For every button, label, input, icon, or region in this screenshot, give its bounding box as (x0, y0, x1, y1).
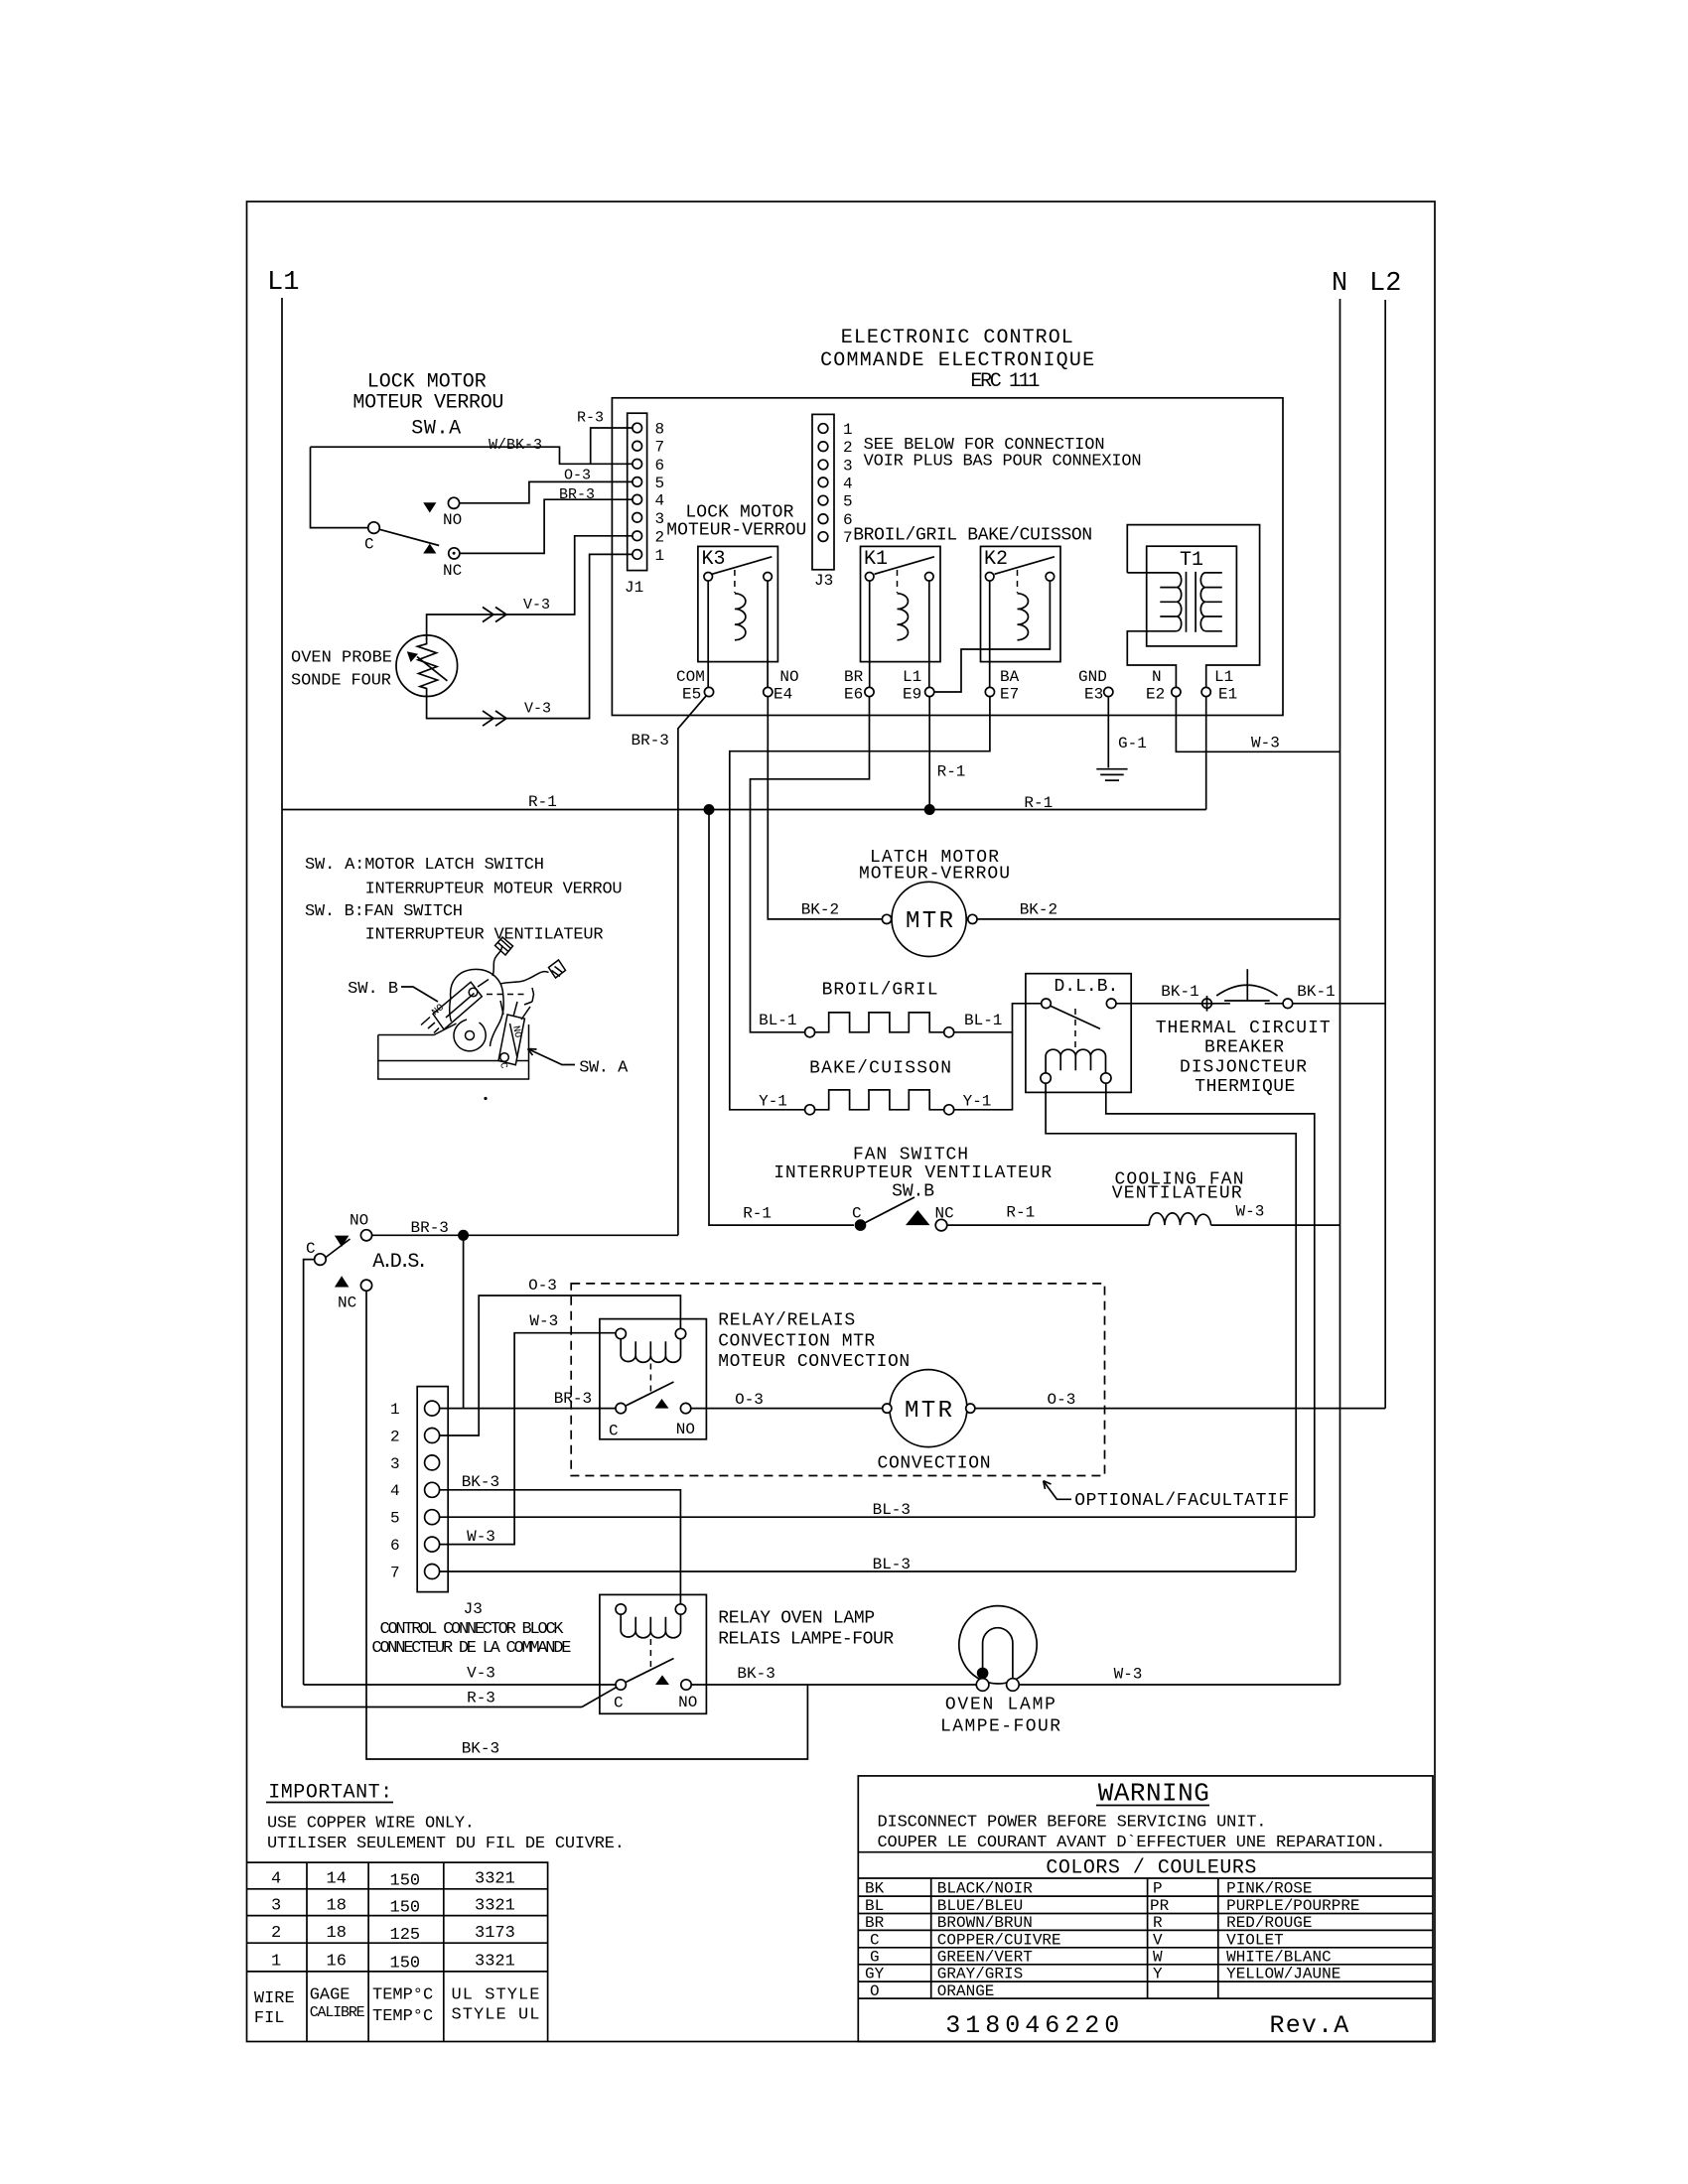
wire lead 1 (492, 945, 502, 976)
svg-text:ERC 111: ERC 111 (970, 370, 1040, 393)
microswitch SW.A body (498, 1015, 524, 1065)
svg-text:L2: L2 (1369, 269, 1401, 299)
J1 pin 5 (633, 478, 642, 487)
wire E9 to K2 right contact (934, 581, 1051, 692)
svg-text:OVEN LAMP: OVEN LAMP (945, 1696, 1055, 1715)
convection relay coil (616, 1328, 626, 1338)
wire A.D.S. NC down to BK-3 bottom (366, 1291, 807, 1759)
wire R-1 from E1 down to bus (1205, 697, 1207, 810)
svg-text:RED/ROUGE: RED/ROUGE (1226, 1914, 1312, 1932)
svg-text:COUPER LE COURANT AVANT D`EFFE: COUPER LE COURANT AVANT D`EFFECTUER UNE … (878, 1834, 1386, 1852)
switch SW.A contact C (368, 522, 380, 534)
svg-text:318046220: 318046220 (945, 2011, 1124, 2040)
svg-text:LAMPE-FOUR: LAMPE-FOUR (940, 1717, 1060, 1737)
svg-text:SW. B:FAN SWITCH: SW. B:FAN SWITCH (305, 902, 463, 921)
pin E7 (985, 687, 994, 696)
wire R-1 fan row to cooling fan (947, 1224, 1149, 1226)
switch SW.A contact NO + wire O-3 to J1 pin 5 (460, 481, 637, 502)
switch SW.A lever (379, 529, 439, 545)
relay convection box (600, 1319, 707, 1439)
svg-text:BK-3: BK-3 (737, 1665, 774, 1683)
svg-text:2: 2 (843, 439, 853, 457)
svg-text:V-3: V-3 (524, 701, 551, 718)
svg-text:VOIR PLUS BAS POUR CONNEXION: VOIR PLUS BAS POUR CONNEXION (864, 453, 1142, 472)
spade terminal 2 (549, 960, 566, 978)
svg-text:BK-2: BK-2 (1020, 901, 1057, 919)
lamp relay contacts (616, 1680, 626, 1690)
J1 pin 6 (633, 460, 642, 470)
svg-text:W-3: W-3 (1236, 1203, 1265, 1221)
convection relay lever (626, 1382, 673, 1406)
svg-text:DISCONNECT POWER BEFORE SERVIC: DISCONNECT POWER BEFORE SERVICING UNIT. (878, 1814, 1267, 1833)
svg-text:C: C (364, 536, 374, 554)
svg-text:FIL: FIL (254, 2009, 285, 2028)
svg-text:R-1: R-1 (1006, 1204, 1035, 1222)
svg-text:J1: J1 (625, 579, 643, 597)
svg-text:125: 125 (390, 1926, 421, 1945)
svg-text:BR-3: BR-3 (554, 1390, 592, 1408)
transformer T1 outer wiring loop (1127, 525, 1259, 692)
motor body (dome) (451, 969, 504, 1046)
svg-text:5: 5 (655, 475, 665, 492)
svg-text:PINK/ROSE: PINK/ROSE (1226, 1880, 1312, 1898)
svg-text:4: 4 (655, 492, 665, 510)
svg-text:4: 4 (390, 1482, 400, 1500)
svg-text:E6: E6 (844, 686, 863, 704)
transformer T1 box (1147, 546, 1237, 646)
svg-text:RELAY/RELAIS: RELAY/RELAIS (718, 1311, 855, 1331)
svg-text:W-3: W-3 (1114, 1666, 1143, 1684)
svg-text:THERMAL CIRCUIT: THERMAL CIRCUIT (1156, 1019, 1331, 1038)
svg-text:BK-2: BK-2 (801, 901, 839, 919)
J1 pin 2 (633, 531, 642, 541)
svg-text:GND: GND (1078, 668, 1107, 686)
svg-text:W-3: W-3 (529, 1312, 558, 1330)
svg-text:R-1: R-1 (743, 1205, 772, 1223)
svg-text:3321: 3321 (475, 1897, 515, 1916)
svg-text:GRAY/GRIS: GRAY/GRIS (937, 1966, 1023, 1983)
svg-text:3321: 3321 (475, 1870, 515, 1889)
wire K1 to E9 (928, 581, 930, 692)
svg-text:E5: E5 (682, 686, 701, 704)
svg-text:BK-1: BK-1 (1161, 983, 1198, 1001)
svg-text:K2: K2 (984, 548, 1008, 571)
svg-text:TEMP°C: TEMP°C (372, 1986, 433, 2005)
svg-text:BROIL/GRIL: BROIL/GRIL (822, 981, 938, 1001)
svg-text:Y: Y (1153, 1966, 1163, 1983)
J3 pin 6 (818, 514, 828, 524)
svg-text:R-1: R-1 (937, 763, 966, 781)
svg-text:7: 7 (843, 529, 853, 547)
svg-text:E9: E9 (903, 686, 921, 704)
lamp relay lever (626, 1659, 673, 1683)
svg-text:COLORS / COULEURS: COLORS / COULEURS (1046, 1857, 1256, 1880)
svg-text:R: R (1153, 1914, 1163, 1932)
microswitch SW.B body (433, 982, 482, 1029)
svg-text:VENTILATEUR: VENTILATEUR (1112, 1184, 1242, 1204)
colors table (858, 1852, 1433, 1998)
svg-text:WHITE/BLANC: WHITE/BLANC (1226, 1948, 1332, 1966)
svg-text:WIRE: WIRE (254, 1989, 295, 2008)
svg-text:Rev.A: Rev.A (1270, 2011, 1350, 2040)
svg-text:CALIBRE: CALIBRE (310, 2004, 365, 2021)
svg-text:18: 18 (327, 1924, 347, 1943)
wire N vertical (1339, 299, 1341, 1685)
SW.A plunger hairs (500, 1001, 530, 1020)
svg-text:THERMIQUE: THERMIQUE (1195, 1077, 1295, 1097)
pin E1 (1201, 687, 1210, 696)
svg-text:BR-3: BR-3 (411, 1219, 449, 1237)
svg-text:150: 150 (390, 1955, 421, 1974)
svg-text:O-3: O-3 (564, 468, 591, 484)
pin E6 (865, 687, 874, 696)
svg-text:2: 2 (271, 1924, 281, 1943)
svg-text:14: 14 (327, 1870, 347, 1889)
pin E2 (1172, 687, 1181, 696)
svg-text:K1: K1 (864, 548, 888, 571)
svg-text:COPPER/CUIVRE: COPPER/CUIVRE (937, 1931, 1061, 1949)
svg-text:CONVECTION MTR: CONVECTION MTR (718, 1332, 875, 1352)
J3 pin 7 (818, 532, 828, 542)
wire BK-1 right to L2 (1293, 1003, 1386, 1005)
svg-text:150: 150 (390, 1899, 421, 1918)
wire pin1 BR-3 to convection relay C (440, 1408, 616, 1410)
cooling fan inductor (1149, 1213, 1210, 1225)
svg-text:BLACK/NOIR: BLACK/NOIR (937, 1880, 1033, 1898)
J1 pin 3 (633, 513, 642, 523)
svg-text:K3: K3 (702, 548, 726, 571)
svg-text:1: 1 (390, 1401, 400, 1419)
svg-text:Y-1: Y-1 (963, 1093, 992, 1111)
svg-text:5: 5 (843, 493, 853, 511)
svg-text:BL: BL (865, 1897, 884, 1915)
svg-text:NC: NC (935, 1205, 954, 1223)
svg-text:BK-3: BK-3 (462, 1473, 499, 1491)
svg-text:3: 3 (271, 1897, 281, 1916)
svg-text:NO: NO (779, 668, 798, 686)
svg-text:MOTEUR VERROU: MOTEUR VERROU (352, 392, 503, 415)
svg-text:INTERRUPTEUR VENTILATEUR: INTERRUPTEUR VENTILATEUR (774, 1163, 1052, 1183)
pin E5 (704, 687, 713, 696)
microswitch SW.B terminals (421, 1018, 439, 1033)
svg-text:A.D.S.: A.D.S. (372, 1251, 428, 1274)
svg-text:R-1: R-1 (1024, 794, 1053, 812)
svg-text:2: 2 (390, 1428, 400, 1445)
svg-text:BK-1: BK-1 (1297, 983, 1335, 1001)
svg-text:1: 1 (843, 421, 853, 439)
wire K3 COM to E5 (707, 581, 709, 692)
transformer T1 primary winding (1177, 573, 1182, 631)
switch SW.B lever (861, 1197, 915, 1225)
svg-text:18: 18 (327, 1897, 347, 1916)
block pin 2 (425, 1429, 440, 1443)
svg-text:E1: E1 (1218, 686, 1237, 704)
svg-text:2: 2 (655, 528, 665, 546)
svg-text:BLUE/BLEU: BLUE/BLEU (937, 1897, 1023, 1915)
svg-text:BK: BK (865, 1880, 885, 1898)
wire R-3 diagonal into C (582, 1688, 617, 1707)
wire fan feeder down from bus (709, 810, 854, 1226)
pin E3 (1104, 687, 1113, 696)
svg-text:NC: NC (338, 1295, 356, 1312)
convection relay armature (649, 1364, 651, 1394)
svg-text:SONDE FOUR: SONDE FOUR (291, 672, 391, 691)
D.L.B. lever (1050, 1006, 1100, 1028)
svg-text:CONNECTEUR DE LA COMMANDE: CONNECTEUR DE LA COMMANDE (371, 1639, 571, 1658)
J1 pin 4 (633, 494, 642, 504)
svg-text:UL STYLE: UL STYLE (452, 1986, 540, 2005)
dashed link in sketch (487, 994, 527, 996)
svg-text:O: O (870, 1982, 880, 2000)
svg-text:R-3: R-3 (467, 1690, 495, 1707)
wire BR-3 branch down to connector pin1 row (463, 1235, 465, 1408)
svg-text:YELLOW/JAUNE: YELLOW/JAUNE (1226, 1966, 1340, 1983)
thermal circuit breaker (1202, 999, 1212, 1009)
svg-text:NO: NO (678, 1694, 697, 1711)
J3 pin 5 (818, 495, 828, 505)
motor MTR (latch) (892, 882, 966, 956)
svg-text:BROIL/GRIL BAKE/CUISSON: BROIL/GRIL BAKE/CUISSON (853, 526, 1092, 546)
svg-text:NC: NC (443, 562, 462, 580)
svg-text:MOTEUR-VERROU: MOTEUR-VERROU (859, 865, 1010, 885)
lamp relay armature (649, 1639, 651, 1669)
svg-text:BL-1: BL-1 (759, 1012, 796, 1029)
svg-text:Y-1: Y-1 (759, 1093, 787, 1111)
svg-text:T1: T1 (1180, 549, 1203, 572)
wire A.D.S. NO to BR-3 junction (372, 1234, 678, 1236)
svg-text:16: 16 (327, 1953, 347, 1972)
D.L.B. coil (1046, 1049, 1105, 1073)
svg-text:GAGE: GAGE (310, 1986, 351, 2005)
svg-text:LOCK MOTOR: LOCK MOTOR (367, 371, 487, 394)
pin E9 (925, 687, 934, 696)
svg-text:DISJONCTEUR: DISJONCTEUR (1180, 1058, 1307, 1078)
chevrons on V-3 upper (483, 608, 506, 622)
svg-text:BL-3: BL-3 (873, 1556, 911, 1573)
block pin 6 (425, 1537, 440, 1552)
svg-text:OVEN PROBE: OVEN PROBE (291, 649, 392, 668)
wire L1 vertical down left side (281, 298, 283, 1707)
J3 pin 1 (818, 424, 828, 434)
wire BK-3 lamp relay NO to oven lamp (691, 1684, 976, 1686)
svg-text:C: C (870, 1931, 880, 1949)
svg-text:FAN SWITCH: FAN SWITCH (853, 1146, 968, 1165)
svg-text:E4: E4 (774, 686, 792, 704)
wire V-3 upper (probe to J1 pin 2) (427, 536, 637, 639)
block pin 4 (425, 1482, 440, 1497)
svg-text:O-3: O-3 (735, 1391, 764, 1409)
svg-text:W/BK-3: W/BK-3 (489, 437, 542, 454)
svg-text:NO: NO (443, 511, 462, 529)
svg-text:MTR: MTR (906, 908, 953, 935)
connector block (7 pin) (417, 1387, 448, 1592)
svg-text:L1: L1 (903, 668, 921, 686)
switch SW.B fan switch contact C (855, 1219, 867, 1231)
wire BR-3 from E5 down left side (678, 696, 706, 1236)
svg-text:BROWN/BRUN: BROWN/BRUN (937, 1914, 1033, 1932)
svg-text:E2: E2 (1146, 686, 1165, 704)
svg-text:J3: J3 (464, 1600, 483, 1618)
svg-text:O-3: O-3 (528, 1277, 557, 1295)
wire pin7 BL-3 (440, 1570, 1297, 1572)
svg-text:C: C (614, 1695, 624, 1712)
svg-text:BK-3: BK-3 (462, 1740, 499, 1758)
wire V-3 lower (probe to J1 pin 1) (427, 554, 637, 718)
svg-text:V-3: V-3 (467, 1665, 495, 1683)
svg-text:O-3: O-3 (1048, 1391, 1076, 1409)
wire V-3 row into lamp relay C (304, 1684, 616, 1686)
J1 pin 1 (633, 550, 642, 560)
wire A.D.S. C to V-3 row (304, 1260, 315, 1685)
wire BL-1 to D.L.B. left contact (954, 1004, 1042, 1032)
svg-text:MOTEUR-VERROU: MOTEUR-VERROU (666, 521, 806, 541)
svg-text:OPTIONAL/FACULTATIF: OPTIONAL/FACULTATIF (1074, 1491, 1289, 1511)
small C circle on SW.B (469, 988, 478, 997)
svg-text:3: 3 (655, 510, 665, 528)
wire K3 NO to E4 (767, 581, 769, 692)
svg-text:V-3: V-3 (523, 597, 550, 614)
block pin 3 (425, 1455, 440, 1470)
convection relay contacts (616, 1403, 626, 1413)
svg-text:USE COPPER WIRE ONLY.: USE COPPER WIRE ONLY. (267, 1815, 475, 1834)
svg-text:SW.A: SW.A (411, 418, 461, 441)
relay oven lamp box (600, 1594, 707, 1713)
svg-text:W-3: W-3 (467, 1528, 495, 1546)
svg-text:J3: J3 (814, 572, 833, 590)
wire E9 down to R-1 bus (928, 697, 930, 810)
motor lower lobe (454, 1020, 486, 1051)
svg-text:SW. A:MOTOR LATCH SWITCH: SW. A:MOTOR LATCH SWITCH (305, 856, 544, 875)
svg-text:BR: BR (865, 1914, 885, 1932)
wire NO to convection motor (691, 1408, 883, 1410)
svg-text:IMPORTANT:: IMPORTANT: (268, 1782, 392, 1805)
transformer T1 core (1187, 572, 1196, 632)
electronic control ERC 111 box (612, 398, 1283, 716)
svg-text:ORANGE: ORANGE (937, 1982, 995, 2000)
relay K2 (bake) (981, 546, 1061, 661)
wire fan to N (1211, 1224, 1340, 1226)
svg-text:C: C (306, 1240, 316, 1258)
svg-text:CONTROL CONNECTOR BLOCK: CONTROL CONNECTOR BLOCK (380, 1620, 565, 1639)
svg-text:1: 1 (271, 1953, 281, 1972)
speck near sketch (484, 1097, 487, 1100)
svg-text:8: 8 (655, 421, 665, 439)
svg-text:LOCK MOTOR: LOCK MOTOR (685, 503, 793, 523)
svg-text:GREEN/VERT: GREEN/VERT (937, 1948, 1033, 1966)
J1 pin 8 (633, 423, 642, 433)
switch SW.A common C wire to W/BK-3 (311, 447, 368, 527)
svg-text:BL-1: BL-1 (964, 1012, 1002, 1029)
wire E6 to broil element (751, 697, 870, 1032)
svg-text:CONVECTION: CONVECTION (878, 1454, 991, 1474)
svg-text:STYLE UL: STYLE UL (452, 2006, 540, 2025)
svg-text:BR-3: BR-3 (559, 486, 595, 503)
svg-text:BL-3: BL-3 (873, 1501, 911, 1519)
svg-text:NO: NO (676, 1421, 695, 1438)
svg-text:D.L.B.: D.L.B. (1055, 977, 1119, 997)
page border frame (247, 202, 1436, 2042)
heating element BAKE (805, 1105, 815, 1115)
svg-text:5: 5 (390, 1510, 400, 1528)
svg-text:G: G (870, 1948, 880, 1966)
wire D.L.B. right contact to breaker (1116, 1003, 1201, 1005)
svg-text:L1: L1 (1214, 668, 1233, 686)
motor MTR (convection) (890, 1370, 967, 1447)
svg-text:RELAIS LAMPE-FOUR: RELAIS LAMPE-FOUR (718, 1630, 894, 1650)
svg-text:MOTEUR CONVECTION: MOTEUR CONVECTION (718, 1352, 910, 1372)
svg-text:BR-3: BR-3 (632, 732, 669, 750)
switch SW.B NC contact (906, 1210, 930, 1225)
svg-text:TEMP°C: TEMP°C (372, 2007, 433, 2026)
svg-text:4: 4 (843, 475, 853, 492)
wire L2 vertical (1384, 300, 1386, 1409)
wire W/BK-3 to J1 pin 6 (311, 447, 637, 464)
J3 pin 4 (818, 478, 828, 487)
wire lead 2 (500, 972, 549, 984)
svg-text:C: C (852, 1205, 862, 1223)
svg-text:PURPLE/POURPRE: PURPLE/POURPRE (1226, 1897, 1359, 1915)
chevrons on V-3 lower (483, 711, 506, 726)
spade terminal 1 (495, 937, 513, 955)
oven lamp (959, 1606, 1037, 1684)
small C circle on SW.A (500, 1053, 509, 1062)
svg-text:6: 6 (390, 1537, 400, 1555)
svg-text:3: 3 (390, 1455, 400, 1473)
svg-text:3173: 3173 (475, 1924, 515, 1943)
svg-text:VIOLET: VIOLET (1226, 1931, 1284, 1949)
svg-text:MTR: MTR (905, 1398, 952, 1425)
relay D.L.B. box (1026, 974, 1131, 1093)
lamp relay coil (616, 1604, 626, 1614)
wire R-3 row from L1 (282, 1706, 582, 1708)
svg-text:V: V (1153, 1931, 1163, 1949)
wire D.L.B. coil right to BL-3 upper (1106, 1083, 1315, 1517)
switch SW.A contact NC + wire BR-3 to J1 pin 4 (460, 499, 637, 553)
pictorial latch motor assembly sketch (378, 937, 566, 1079)
svg-text:COM: COM (676, 668, 705, 686)
svg-text:RELAY OVEN LAMP: RELAY OVEN LAMP (718, 1609, 875, 1629)
svg-text:L1: L1 (267, 268, 299, 298)
wire Y-1 to D.L.B. left contact riser (954, 1032, 1013, 1110)
relay K3 (lock motor) (698, 546, 778, 661)
relay K1 (broil) (861, 546, 941, 661)
wire D.L.B. coil left to BL-3 lower (1046, 1083, 1296, 1571)
pin E4 (764, 687, 773, 696)
svg-text:NO: NO (350, 1212, 368, 1230)
svg-text:INTERRUPTEUR VENTILATEUR: INTERRUPTEUR VENTILATEUR (365, 926, 604, 945)
ground G-1 (1096, 769, 1127, 780)
svg-text:W-3: W-3 (1251, 735, 1280, 752)
wire pin5 BL-3 (440, 1516, 1315, 1518)
wire E7 to bake element (730, 697, 990, 1110)
svg-text:ELECTRONIC CONTROL: ELECTRONIC CONTROL (841, 327, 1073, 349)
wire lamp to N (1019, 1684, 1339, 1686)
svg-text:7: 7 (655, 439, 665, 457)
svg-text:INTERRUPTEUR MOTEUR VERROU: INTERRUPTEUR MOTEUR VERROU (365, 881, 623, 899)
D.L.B. contacts (1042, 999, 1052, 1009)
svg-text:GY: GY (865, 1966, 885, 1983)
label OPTIONAL/FACULTATIF leader (1044, 1481, 1071, 1500)
svg-text:1: 1 (655, 547, 665, 565)
wire convection motor to L2 (975, 1408, 1385, 1410)
wire pin6 W-3 to convection relay coil left (440, 1333, 616, 1545)
oven probe (thermistor) (396, 635, 458, 697)
svg-text:G-1: G-1 (1118, 735, 1147, 752)
svg-text:6: 6 (843, 511, 853, 529)
svg-text:E3: E3 (1084, 686, 1103, 704)
svg-text:7: 7 (390, 1564, 400, 1581)
wire R-1 bus (282, 809, 1206, 811)
